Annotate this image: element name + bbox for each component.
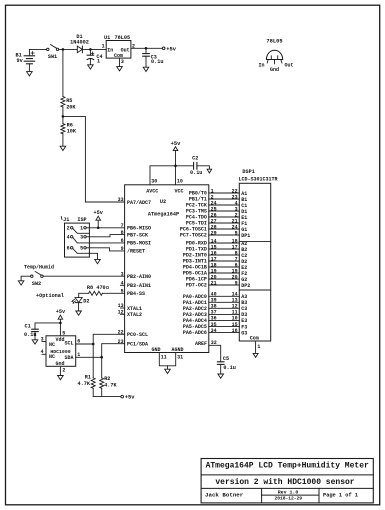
svg-text:SW1: SW1 bbox=[48, 54, 57, 60]
svg-text:PA7/ADC7: PA7/ADC7 bbox=[127, 200, 151, 206]
svg-text:version 2 with HDC1000 sensor: version 2 with HDC1000 sensor bbox=[215, 478, 354, 487]
pin 3 stub (NC) bbox=[41, 336, 46, 342]
wire AVCC branch bbox=[150, 166, 176, 185]
svg-text:Out: Out bbox=[285, 63, 294, 69]
svg-text:16: 16 bbox=[232, 328, 238, 334]
svg-text:+5v: +5v bbox=[171, 141, 181, 147]
wire PC2-TCK (pin 24) to LCD pin 4 segment C1 bbox=[186, 200, 247, 209]
connector J1 ISP box bbox=[61, 217, 89, 258]
wire battery to SW1 bbox=[29, 48, 46, 50]
wire PC7-TOSC2 (pin 29) to LCD pin 5 segment DP1 bbox=[180, 230, 250, 239]
sensor U3 HDC1000 box bbox=[46, 336, 76, 367]
svg-text:4: 4 bbox=[41, 349, 44, 355]
svg-text:PB6-MISO: PB6-MISO bbox=[127, 226, 151, 232]
U1 Com pin 3 to ground bbox=[120, 58, 124, 67]
+5v supply arrow (HDC1000) bbox=[56, 309, 66, 336]
svg-text:2: 2 bbox=[67, 226, 70, 232]
wire PA0-ADC0 (pin 40) to LCD pin 14 segment A3 bbox=[183, 292, 247, 301]
svg-text:Com: Com bbox=[250, 335, 259, 341]
svg-text:G3: G3 bbox=[241, 330, 247, 336]
svg-text:PA6-ADC6: PA6-ADC6 bbox=[183, 330, 207, 336]
wire SW2 to PB2-AIN0 bbox=[43, 275, 125, 277]
pin 10 label (VCC) bbox=[177, 179, 183, 185]
wire node down to R5 bbox=[62, 49, 64, 96]
78L05 TO-92 package drawing bbox=[258, 38, 293, 73]
wire D1 to U1 In bbox=[82, 48, 106, 50]
wire C2 to ground bbox=[197, 166, 210, 169]
J1 pin circles and numbers bbox=[67, 226, 87, 252]
svg-text:SCL: SCL bbox=[64, 341, 73, 347]
switch SW2 bbox=[31, 272, 44, 287]
node divider junction bbox=[62, 115, 65, 118]
capacitor C5 0.1u bbox=[217, 356, 235, 374]
svg-text:LCD-S301C31TR: LCD-S301C31TR bbox=[239, 177, 278, 183]
svg-text:PB4-SS: PB4-SS bbox=[127, 291, 145, 297]
J1 diagonal pin 4 bbox=[73, 238, 77, 243]
svg-text:5: 5 bbox=[80, 246, 83, 252]
wire J1-1 to PB6-MISO bbox=[86, 227, 124, 229]
wire divider tap to PA7/ADC7 bbox=[63, 116, 125, 202]
resistor R6 10K bbox=[61, 122, 77, 134]
svg-text:U2: U2 bbox=[160, 199, 166, 205]
wire J1-6 to ground bbox=[89, 253, 97, 259]
svg-text:PC7-TOSC2: PC7-TOSC2 bbox=[180, 233, 207, 239]
stub XTAL1 bbox=[120, 307, 124, 309]
svg-text:PD7-OC2: PD7-OC2 bbox=[186, 283, 207, 289]
junction VCC rail bbox=[174, 165, 177, 168]
author text bbox=[205, 492, 244, 499]
node +9V junction bbox=[62, 48, 65, 51]
page text bbox=[323, 492, 358, 498]
svg-text:Temp/Humid: Temp/Humid bbox=[24, 264, 54, 270]
+5v supply arrow (VCC) bbox=[171, 141, 181, 185]
wire U1 Out to +5v bbox=[131, 47, 163, 49]
svg-text:2: 2 bbox=[62, 367, 65, 373]
svg-text:In: In bbox=[107, 47, 113, 53]
svg-text:Vdd: Vdd bbox=[55, 337, 64, 343]
wire R8 to D2 bbox=[79, 293, 89, 297]
svg-text:5: 5 bbox=[62, 330, 65, 336]
svg-text:AREF: AREF bbox=[195, 341, 207, 347]
ground (LCD Com) bbox=[253, 353, 258, 357]
pin 30 label (AVCC) bbox=[151, 179, 157, 185]
svg-text:C2: C2 bbox=[192, 156, 198, 162]
HDC1000 Gnd pin 2 to ground bbox=[60, 366, 65, 375]
svg-text:3: 3 bbox=[80, 235, 83, 241]
svg-text:SDA: SDA bbox=[64, 355, 73, 361]
wire PB0/T0 (pin 1) to LCD pin 22 segment A1 bbox=[189, 188, 247, 197]
svg-text:2018-12-29: 2018-12-29 bbox=[275, 495, 303, 501]
ground (battery) bbox=[27, 72, 33, 76]
pin 4 stub (NC) bbox=[41, 349, 46, 355]
svg-text:4: 4 bbox=[67, 235, 70, 241]
wire PC5-TDI (pin 27) to LCD pin 21 segment F1 bbox=[186, 218, 247, 227]
svg-text:32: 32 bbox=[211, 340, 217, 346]
junction J1 MISO/+5v bbox=[97, 227, 100, 230]
svg-text:4.7K: 4.7K bbox=[104, 382, 117, 388]
pin 2 label (U1 Out) bbox=[132, 44, 135, 50]
svg-text:AVCC: AVCC bbox=[146, 189, 158, 195]
svg-text:Gnd: Gnd bbox=[270, 67, 279, 73]
svg-text:9: 9 bbox=[235, 280, 238, 286]
capacitor C3 0.1u bbox=[143, 48, 164, 67]
svg-text:20K: 20K bbox=[66, 104, 76, 110]
wire PA2-ADC2 (pin 38) to LCD pin 12 segment C3 bbox=[183, 304, 247, 313]
title text bbox=[206, 461, 369, 470]
wire R5 to R6 bbox=[62, 107, 64, 124]
svg-text:PB3-AIN1: PB3-AIN1 bbox=[127, 283, 151, 289]
svg-text:78L05: 78L05 bbox=[115, 35, 131, 41]
svg-text:VCC: VCC bbox=[174, 189, 183, 195]
ground (C1) bbox=[32, 340, 38, 344]
svg-text:78L05: 78L05 bbox=[266, 38, 282, 44]
svg-text:Page 1 of 1: Page 1 of 1 bbox=[323, 492, 358, 498]
wire J1-5 to /RESET bbox=[86, 248, 124, 251]
ground (SW2) bbox=[18, 281, 24, 285]
LCD DSP1 LCD-S301C31TR box bbox=[239, 169, 278, 341]
svg-text:9v: 9v bbox=[17, 58, 24, 64]
capacitor C1 0.1u bbox=[24, 323, 38, 339]
wire PA5-ADC5 (pin 35) to LCD pin 15 segment F3 bbox=[183, 322, 247, 331]
label Temp/Humid bbox=[24, 264, 54, 270]
ground (C2) bbox=[207, 169, 212, 173]
svg-text:R8: R8 bbox=[87, 285, 93, 291]
wire PA3-ADC3 (pin 37) to LCD pin 11 segment D3 bbox=[183, 310, 247, 319]
svg-text:R6: R6 bbox=[67, 122, 73, 128]
junction at C4 bbox=[89, 48, 92, 51]
svg-text:R5: R5 bbox=[66, 98, 72, 104]
resistor R5 20K bbox=[61, 97, 77, 111]
wire SW1 to node bbox=[59, 48, 77, 50]
svg-text:30: 30 bbox=[151, 179, 157, 185]
junction at C3 bbox=[145, 47, 148, 50]
stub XTAL2 bbox=[120, 313, 124, 315]
svg-text:Jack Botner: Jack Botner bbox=[205, 492, 244, 499]
junction SDA/R2 bbox=[100, 356, 103, 359]
svg-text:0.1u: 0.1u bbox=[24, 332, 36, 338]
svg-text:31: 31 bbox=[177, 354, 183, 360]
wire PD2-INT0 (pin 16) to LCD pin 8 segment C2 bbox=[183, 250, 247, 258]
svg-text:1N4002: 1N4002 bbox=[70, 40, 89, 46]
wire R8 to PB4-SS bbox=[102, 292, 124, 294]
svg-text:470: 470 bbox=[96, 285, 105, 291]
J1 diagonal pin 6 bbox=[73, 249, 90, 254]
+5v supply arrow (J1) bbox=[94, 210, 104, 228]
MCU GND+AGND to ground bbox=[159, 353, 183, 370]
junction Vdd/C1 bbox=[59, 322, 62, 325]
wire PB1/T1 (pin 2) to LCD pin 23 segment B1 bbox=[189, 194, 247, 203]
wire D2 to ground bbox=[78, 303, 80, 311]
svg-text:NC: NC bbox=[49, 342, 55, 348]
svg-text:DP2: DP2 bbox=[241, 283, 250, 289]
svg-text:0.1u: 0.1u bbox=[190, 170, 202, 176]
wire PD7-OC2 (pin 21) to LCD pin 9 segment DP2 bbox=[186, 280, 250, 289]
svg-text:6: 6 bbox=[77, 339, 80, 345]
svg-text:PB5-MOSI: PB5-MOSI bbox=[127, 241, 151, 247]
svg-text:5: 5 bbox=[235, 230, 238, 236]
svg-text:3: 3 bbox=[121, 59, 124, 65]
svg-text:10: 10 bbox=[177, 179, 183, 185]
wire pullups to +5v terminal bbox=[93, 396, 121, 398]
pin 5 label (Vdd) bbox=[62, 330, 65, 336]
svg-text:11: 11 bbox=[161, 354, 167, 360]
ground (HDC1000) bbox=[58, 376, 64, 380]
wire PA6-ADC6 (pin 34) to LCD pin 16 segment G3 bbox=[183, 328, 247, 337]
svg-text:/RESET: /RESET bbox=[127, 249, 145, 255]
svg-text:+5v: +5v bbox=[166, 46, 176, 52]
ground (U1 Com) bbox=[117, 67, 123, 71]
svg-text:4.7K: 4.7K bbox=[78, 381, 91, 387]
svg-text:J1: J1 bbox=[63, 217, 69, 223]
rev text bbox=[278, 489, 299, 495]
svg-text:0.1u: 0.1u bbox=[223, 365, 235, 371]
junction SCL/R1 bbox=[92, 343, 95, 346]
svg-text:NC: NC bbox=[49, 354, 55, 360]
svg-text:C1: C1 bbox=[25, 323, 31, 329]
subtitle text bbox=[215, 478, 354, 487]
svg-text:ATmega164P LCD Temp+Humidity M: ATmega164P LCD Temp+Humidity Meter bbox=[206, 461, 369, 470]
wire PD6-1CP (pin 20) to LCD pin 20 segment G2 bbox=[186, 274, 247, 283]
MCU left pin labels bbox=[118, 197, 151, 347]
diode D1 1N4002 bbox=[70, 34, 89, 53]
svg-text:PB2-AIN0: PB2-AIN0 bbox=[127, 274, 151, 280]
label +Optional bbox=[36, 293, 64, 299]
LED D2 bbox=[72, 298, 90, 305]
wire PD0-RXD (pin 14) to LCD pin 18 segment A2 bbox=[186, 238, 247, 247]
svg-text:Rev 1.0: Rev 1.0 bbox=[278, 489, 299, 495]
svg-text:PC0-SCL: PC0-SCL bbox=[127, 332, 148, 338]
wire AREF to C5 bbox=[209, 340, 221, 362]
svg-text:+Optional: +Optional bbox=[36, 293, 64, 299]
svg-text:6: 6 bbox=[67, 246, 70, 252]
resistor R8 470 bbox=[87, 285, 109, 295]
wire SCL to PC0-SCL bbox=[76, 334, 125, 344]
ground (R6) bbox=[60, 146, 66, 150]
svg-text:1: 1 bbox=[97, 59, 100, 65]
wire PA1-ADC1 (pin 39) to LCD pin 13 segment B3 bbox=[183, 298, 247, 307]
wire PD5-OC1A (pin 19) to LCD pin 19 segment F2 bbox=[183, 268, 247, 277]
LCD Com pin to ground bbox=[256, 341, 261, 353]
capacitor C2 0.1u bbox=[190, 156, 202, 176]
wire PC6-TOSC1 (pin 28) to LCD pin 24 segment G1 bbox=[180, 224, 247, 233]
svg-text:Ω: Ω bbox=[106, 285, 109, 291]
wire to C2 bbox=[176, 165, 194, 167]
wire J1-3 to PB7-SCK bbox=[86, 235, 124, 237]
wire PD4-OC1B (pin 18) to LCD pin 6 segment E2 bbox=[183, 262, 247, 271]
ground (D2) bbox=[76, 311, 82, 315]
battery B1 bbox=[16, 49, 35, 71]
title block frame bbox=[201, 459, 373, 503]
svg-text:R2: R2 bbox=[104, 376, 110, 382]
svg-text:0.1u: 0.1u bbox=[151, 59, 163, 65]
svg-text:1: 1 bbox=[102, 44, 105, 50]
svg-text:DP1: DP1 bbox=[241, 233, 250, 239]
wire PC4-TDO (pin 26) to LCD pin 2 segment E1 bbox=[186, 212, 247, 221]
date text bbox=[275, 495, 303, 501]
wire PA4-ADC4 (pin 36) to LCD pin 10 segment E3 bbox=[183, 316, 247, 325]
J1 diagonal pin 2 bbox=[73, 229, 90, 234]
wire PD1-TXD (pin 15) to LCD pin 17 segment B2 bbox=[186, 244, 247, 253]
capacitor C4 1uF (polarized) bbox=[87, 49, 103, 64]
MCU U2 ATmega164P box bbox=[125, 185, 209, 353]
wire to C1 bbox=[35, 323, 60, 329]
ground (MCU) bbox=[165, 369, 171, 373]
svg-text:33: 33 bbox=[118, 197, 124, 203]
svg-text:U1: U1 bbox=[104, 35, 110, 41]
wire R6 to ground bbox=[62, 134, 64, 146]
regulator U1 78L05 box bbox=[104, 35, 131, 59]
ground (C3) bbox=[143, 67, 149, 71]
ground (C5) bbox=[218, 374, 224, 378]
svg-text:1: 1 bbox=[257, 344, 260, 350]
wire SW2 to ground bbox=[21, 276, 31, 281]
svg-text:1: 1 bbox=[80, 226, 83, 232]
stub PB3-AIN1 bbox=[120, 284, 124, 286]
svg-text:+5v: +5v bbox=[94, 210, 104, 216]
wire PC3-TMS (pin 25) to LCD pin 3 segment D1 bbox=[186, 206, 247, 215]
ground (C4) bbox=[88, 65, 94, 69]
svg-text:1: 1 bbox=[77, 352, 80, 358]
svg-text:3: 3 bbox=[41, 336, 44, 342]
svg-text:+5v: +5v bbox=[56, 309, 66, 315]
ground (J1) bbox=[95, 259, 101, 263]
svg-text:C5: C5 bbox=[223, 356, 229, 362]
wire J1-4 to PB5-MOSI bbox=[77, 242, 124, 244]
terminal +5v (regulator output) bbox=[162, 46, 176, 52]
svg-text:R1: R1 bbox=[85, 375, 91, 381]
svg-text:SW2: SW2 bbox=[32, 281, 41, 287]
wire SDA to PC1/SDA bbox=[76, 344, 125, 358]
svg-text:XTAL2: XTAL2 bbox=[127, 312, 142, 318]
svg-text:In: In bbox=[258, 63, 264, 69]
svg-text:10K: 10K bbox=[67, 129, 77, 135]
wire PD3-INT1 (pin 17) to LCD pin 7 segment D2 bbox=[183, 256, 247, 265]
svg-text:AGND: AGND bbox=[171, 347, 183, 353]
svg-text:+5v: +5v bbox=[125, 395, 135, 401]
svg-text:ATmega164P: ATmega164P bbox=[148, 212, 179, 218]
svg-text:ISP: ISP bbox=[77, 217, 86, 223]
resistor R2 4.7K bbox=[100, 357, 118, 396]
svg-text:PC1/SDA: PC1/SDA bbox=[127, 342, 148, 348]
svg-text:D2: D2 bbox=[83, 299, 89, 305]
svg-text:PB7-SCK: PB7-SCK bbox=[127, 232, 148, 238]
switch SW1 bbox=[47, 45, 59, 60]
svg-text:XTAL1: XTAL1 bbox=[127, 306, 142, 312]
svg-text:DSP1: DSP1 bbox=[242, 169, 254, 175]
pin 1 label (U1 In) bbox=[102, 44, 105, 50]
terminal +5v (pullups) bbox=[121, 395, 135, 401]
resistor R1 4.7K bbox=[78, 344, 96, 397]
